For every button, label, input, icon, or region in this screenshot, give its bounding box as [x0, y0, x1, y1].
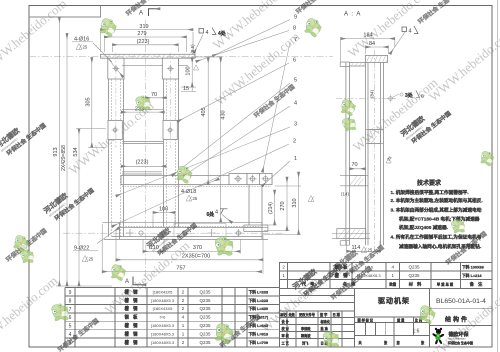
dim 70	[146, 97, 167, 99]
svg-text:3. 本机架由两部分组成,其框上部为减速电动: 3. 本机架由两部分组成,其框上部为减速电动	[391, 207, 482, 214]
frog stamp 6	[341, 116, 358, 134]
green stamp brand text	[399, 99, 453, 148]
dim 100 right	[191, 58, 193, 88]
svg-text:技术要求: 技术要求	[417, 179, 442, 187]
frog stamp 11	[110, 264, 126, 282]
frog stamp 16	[451, 218, 467, 235]
left column inner walls	[112, 58, 121, 236]
dim 405	[207, 58, 209, 185]
surface mark 25 under 4-d16	[76, 44, 82, 50]
svg-text:3处: 3处	[405, 92, 414, 99]
dim 2X350=700	[116, 229, 263, 274]
svg-text:[180X48X5.3: [180X48X5.3	[151, 298, 175, 303]
svg-text:4: 4	[294, 101, 297, 107]
section bottom block	[337, 229, 366, 239]
section dim 70	[349, 168, 365, 170]
mid block holes	[112, 127, 174, 134]
svg-text:184: 184	[363, 33, 372, 39]
svg-text:Q235: Q235	[199, 323, 211, 328]
frog stamp 1	[99, 18, 119, 39]
section dim 114	[347, 241, 380, 253]
svg-text:设 计: 设 计	[282, 319, 290, 324]
top plate	[101, 54, 196, 58]
block centerlines	[116, 53, 170, 148]
section hole	[389, 97, 393, 101]
svg-text:8: 8	[69, 298, 72, 304]
svg-text:批 准: 批 准	[321, 326, 329, 331]
svg-text:(223): (223)	[137, 39, 150, 45]
frog stamp 4	[135, 94, 153, 113]
title block grid	[280, 262, 492, 347]
svg-text:310: 310	[292, 198, 298, 207]
svg-text:签 字: 签 字	[319, 312, 328, 317]
svg-text:材 料: 材 料	[408, 281, 422, 288]
rail box mid	[247, 173, 259, 184]
tech notes body	[391, 189, 483, 250]
svg-text:槽 钢: 槽 钢	[125, 297, 139, 304]
svg-text:下料 L=709: 下料 L=709	[249, 340, 269, 345]
svg-text:审 核: 审 核	[282, 333, 290, 338]
upper right clamp block	[162, 58, 178, 79]
frog stamp 13	[214, 323, 235, 346]
svg-text:Q235: Q235	[199, 289, 211, 294]
svg-text:279: 279	[137, 31, 146, 37]
svg-text:标记: 标记	[279, 312, 287, 317]
svg-text:4: 4	[215, 210, 218, 216]
svg-text:刘飞: 刘飞	[302, 341, 309, 346]
svg-text:5: 5	[69, 324, 72, 330]
cross tie above 233 dim	[122, 108, 164, 110]
svg-text:日 期: 日 期	[333, 312, 341, 317]
svg-text:槽 钢: 槽 钢	[125, 322, 139, 329]
svg-text:下料 100X68: 下料 100X68	[462, 264, 484, 269]
dim 270	[286, 177, 288, 231]
svg-text:标准化: 标准化	[320, 319, 331, 324]
svg-text:6: 6	[293, 58, 296, 64]
left parts table rows	[69, 288, 269, 346]
svg-text:(223): (223)	[136, 160, 149, 166]
bottom beam rear edge	[102, 221, 262, 223]
svg-text:t=6: t=6	[160, 315, 166, 320]
dim (223) top	[112, 45, 178, 52]
svg-text:Q235: Q235	[199, 298, 211, 303]
surface mark right of col	[194, 65, 199, 70]
svg-text:下料 L=233: 下料 L=233	[249, 289, 269, 294]
svg-text:430: 430	[221, 110, 227, 119]
svg-text:70: 70	[352, 162, 358, 168]
svg-text:Q235: Q235	[199, 340, 211, 345]
cross tie under mid blocks	[122, 141, 163, 143]
svg-text:备 注: 备 注	[470, 281, 483, 288]
svg-text:757: 757	[176, 265, 185, 271]
svg-text:7: 7	[294, 37, 297, 43]
frog stamp 14	[322, 330, 341, 350]
rail hatch	[122, 185, 271, 187]
svg-text:下料 L=223: 下料 L=223	[249, 298, 269, 303]
svg-text:2X350=700: 2X350=700	[182, 254, 210, 260]
section left channel flanges	[340, 62, 349, 245]
section dim 184	[341, 39, 395, 62]
dim 319	[101, 30, 194, 52]
svg-text:BL650-01A-01-4: BL650-01A-01-4	[436, 298, 486, 305]
bottom beam bottom edge	[104, 222, 268, 239]
scan edge line	[497, 0, 499, 352]
svg-text:Q235: Q235	[408, 273, 420, 278]
svg-text:重 量: 重 量	[397, 318, 405, 323]
upper block holes	[112, 65, 173, 72]
frog stamp 9	[12, 234, 31, 253]
svg-text:25: 25	[89, 257, 94, 262]
svg-text:534: 534	[73, 147, 79, 156]
svg-text:5: 5	[294, 78, 297, 84]
svg-text:6处: 6处	[207, 211, 216, 218]
left parts table grid	[65, 288, 280, 347]
frog stamp 7	[175, 165, 193, 184]
svg-text:9: 9	[294, 15, 297, 21]
svg-text:校 对: 校 对	[282, 326, 290, 331]
svg-text:郭海波: 郭海波	[301, 333, 311, 338]
section weld mark	[402, 27, 407, 32]
svg-text:7: 7	[69, 307, 72, 313]
frog stamp 3	[303, 17, 324, 39]
svg-text:15: 15	[183, 86, 189, 92]
leader 4-d16	[93, 43, 123, 77]
dim 279	[104, 37, 186, 52]
company logo mascot	[432, 328, 445, 345]
svg-text:驱动机架: 驱动机架	[378, 296, 410, 305]
svg-text:图 样 标 记: 图 样 标 记	[358, 318, 374, 323]
dim 757	[102, 224, 261, 274]
brand stamp left edge	[0, 111, 48, 160]
svg-text:305: 305	[86, 97, 92, 106]
svg-text:9: 9	[69, 290, 72, 296]
svg-text:A : A: A : A	[344, 12, 361, 18]
title block header texts	[301, 281, 483, 288]
svg-text:913: 913	[53, 147, 59, 156]
frog stamp 15	[418, 305, 437, 326]
svg-text:8: 8	[293, 26, 296, 32]
svg-text:工 艺: 工 艺	[282, 341, 290, 346]
svg-text:6: 6	[69, 315, 72, 321]
brand stamp left mid	[42, 176, 96, 225]
brand stamp center bottom	[145, 211, 199, 260]
dim 370	[164, 250, 240, 252]
svg-text:270: 270	[280, 201, 286, 210]
dim 2X429=858	[66, 33, 68, 286]
svg-text:Q235: Q235	[199, 332, 211, 337]
svg-text:机架,配YCT180-4B 电机;下部为减速器: 机架,配YCT180-4B 电机;下部为减速器	[399, 216, 480, 223]
dim (214)	[274, 190, 276, 225]
svg-text:1. 机架焊接后须平整,两工作面需刨平.: 1. 机架焊接后须平整,两工作面需刨平.	[391, 189, 469, 196]
svg-text:25: 25	[83, 45, 88, 50]
svg-text:钢 板: 钢 板	[125, 314, 139, 321]
svg-text:4处: 4处	[218, 30, 227, 37]
svg-text:1:6: 1:6	[413, 328, 420, 334]
svg-text:A: A	[139, 11, 143, 17]
svg-text:[180X43X5: [180X43X5	[153, 289, 174, 294]
svg-text:(8.5): (8.5)	[190, 44, 195, 54]
svg-text:100: 100	[159, 207, 168, 213]
frog stamp 8	[215, 236, 235, 258]
svg-text:B: B	[421, 94, 424, 99]
svg-text:1: 1	[294, 156, 297, 162]
surface mark above beam	[308, 196, 314, 202]
svg-text:槽 钢: 槽 钢	[125, 305, 139, 312]
left column outer walls	[109, 58, 124, 236]
svg-text:319: 319	[139, 24, 148, 30]
dim (223) mid	[121, 165, 166, 167]
svg-text:结构件: 结构件	[445, 316, 469, 324]
horizontal centerline	[29, 55, 333, 57]
svg-text:[180X48X5.3: [180X48X5.3	[151, 332, 175, 337]
brand stamp title block	[291, 252, 345, 301]
section top plate block	[366, 55, 388, 62]
right column outer walls	[164, 58, 179, 227]
svg-text:4-Ø18: 4-Ø18	[181, 189, 196, 195]
rail box right	[259, 173, 272, 184]
dim 100 holes	[153, 213, 175, 229]
cross tie under upper blocks	[122, 65, 188, 67]
svg-text:2. 本机架为主装驱动,左装驱动机架与其相反.: 2. 本机架为主装驱动,左装驱动机架与其相反.	[391, 197, 483, 204]
svg-text:Q235: Q235	[199, 315, 211, 320]
cross tie above rail	[122, 172, 162, 174]
svg-text:下料 L=913: 下料 L=913	[249, 332, 269, 337]
svg-text:Q235: Q235	[408, 264, 420, 269]
svg-text:Q235: Q235	[199, 306, 211, 311]
frog stamp 17	[480, 151, 496, 168]
dim 305	[91, 58, 93, 148]
svg-text:2X429=858: 2X429=858	[61, 145, 67, 171]
section centerline	[336, 98, 396, 100]
frog stamp 5	[340, 99, 357, 117]
svg-text:更改文件号: 更改文件号	[299, 312, 316, 317]
svg-text:[180X48X5.3: [180X48X5.3	[151, 323, 175, 328]
mid right clamp block	[163, 121, 177, 140]
svg-text:德欧环保: 德欧环保	[448, 331, 470, 338]
right hanger plate	[249, 185, 262, 225]
svg-text:槽 钢: 槽 钢	[125, 331, 139, 338]
svg-text:[180X48X5.3: [180X48X5.3	[151, 340, 175, 345]
section dim 84	[366, 47, 389, 54]
svg-text:槽 钢: 槽 钢	[125, 339, 139, 346]
svg-text:处数: 处数	[288, 312, 296, 317]
title block left small texts	[279, 312, 425, 346]
brand stamp below section	[332, 233, 386, 282]
svg-text:下料 L=430: 下料 L=430	[249, 306, 269, 311]
rail box holes	[234, 175, 270, 183]
svg-text:4: 4	[206, 30, 209, 36]
section left channel	[346, 62, 350, 245]
rail box left	[229, 173, 247, 184]
svg-text:100: 100	[186, 66, 192, 75]
dim 233	[121, 111, 164, 113]
beam top hatch	[120, 225, 261, 227]
svg-text:(14): (14)	[341, 192, 350, 197]
svg-text:单 重 总 重: 单 重 总 重	[437, 282, 454, 287]
weld mark top plate	[199, 29, 204, 34]
frog stamp 10	[20, 248, 36, 265]
beam centerline	[63, 232, 285, 234]
frog stamp 12	[51, 302, 71, 324]
motor rail	[121, 173, 272, 184]
dim 913	[58, 17, 60, 286]
svg-text:A: A	[125, 279, 129, 285]
section cross plate	[349, 176, 365, 186]
section mid block	[368, 130, 381, 144]
svg-text:3: 3	[294, 122, 297, 128]
svg-text:数量: 数量	[388, 282, 396, 287]
dim 15	[191, 87, 193, 91]
svg-text:李训政: 李训政	[300, 326, 311, 331]
svg-text:370: 370	[193, 245, 202, 251]
svg-text:环保社会 生态中国: 环保社会 生态中国	[448, 340, 473, 345]
top plate hatch	[102, 54, 195, 58]
dim 430	[220, 58, 222, 223]
top-left band of frame part	[29, 6, 101, 18]
beam inner segment	[174, 224, 226, 237]
dim 534	[78, 129, 80, 286]
svg-text:(84): (84)	[369, 90, 374, 99]
bottom beam top edge	[120, 226, 262, 228]
dim 310	[298, 172, 300, 235]
svg-text:2: 2	[293, 139, 296, 145]
svg-text:84: 84	[369, 41, 375, 47]
svg-text:(214): (214)	[268, 202, 274, 214]
svg-text:下料 L=214: 下料 L=214	[462, 273, 482, 278]
hanger plate flange	[244, 225, 268, 232]
svg-text:25: 25	[193, 196, 198, 201]
section surface mark	[386, 158, 391, 163]
title block list rows	[282, 263, 483, 279]
section right channel	[366, 63, 384, 246]
svg-text:4: 4	[409, 28, 412, 34]
mid left clamp block	[108, 121, 122, 140]
svg-text:70: 70	[151, 92, 157, 98]
vertical centerline	[145, 20, 147, 292]
right column inner walls	[167, 58, 176, 227]
svg-text:机架,配JZQ400 减速器.: 机架,配JZQ400 减速器.	[399, 224, 448, 231]
label 3 places	[392, 94, 399, 98]
dim 110	[143, 239, 164, 254]
svg-text:[180X43X5: [180X43X5	[153, 306, 174, 311]
beam holes	[126, 229, 243, 237]
svg-text:槽 钢: 槽 钢	[125, 288, 139, 295]
upper left clamp block	[108, 58, 124, 79]
svg-text:4. 所有孔在工作面刨平后加工,为保证电机与: 4. 所有孔在工作面刨平后加工,为保证电机与	[391, 234, 482, 241]
